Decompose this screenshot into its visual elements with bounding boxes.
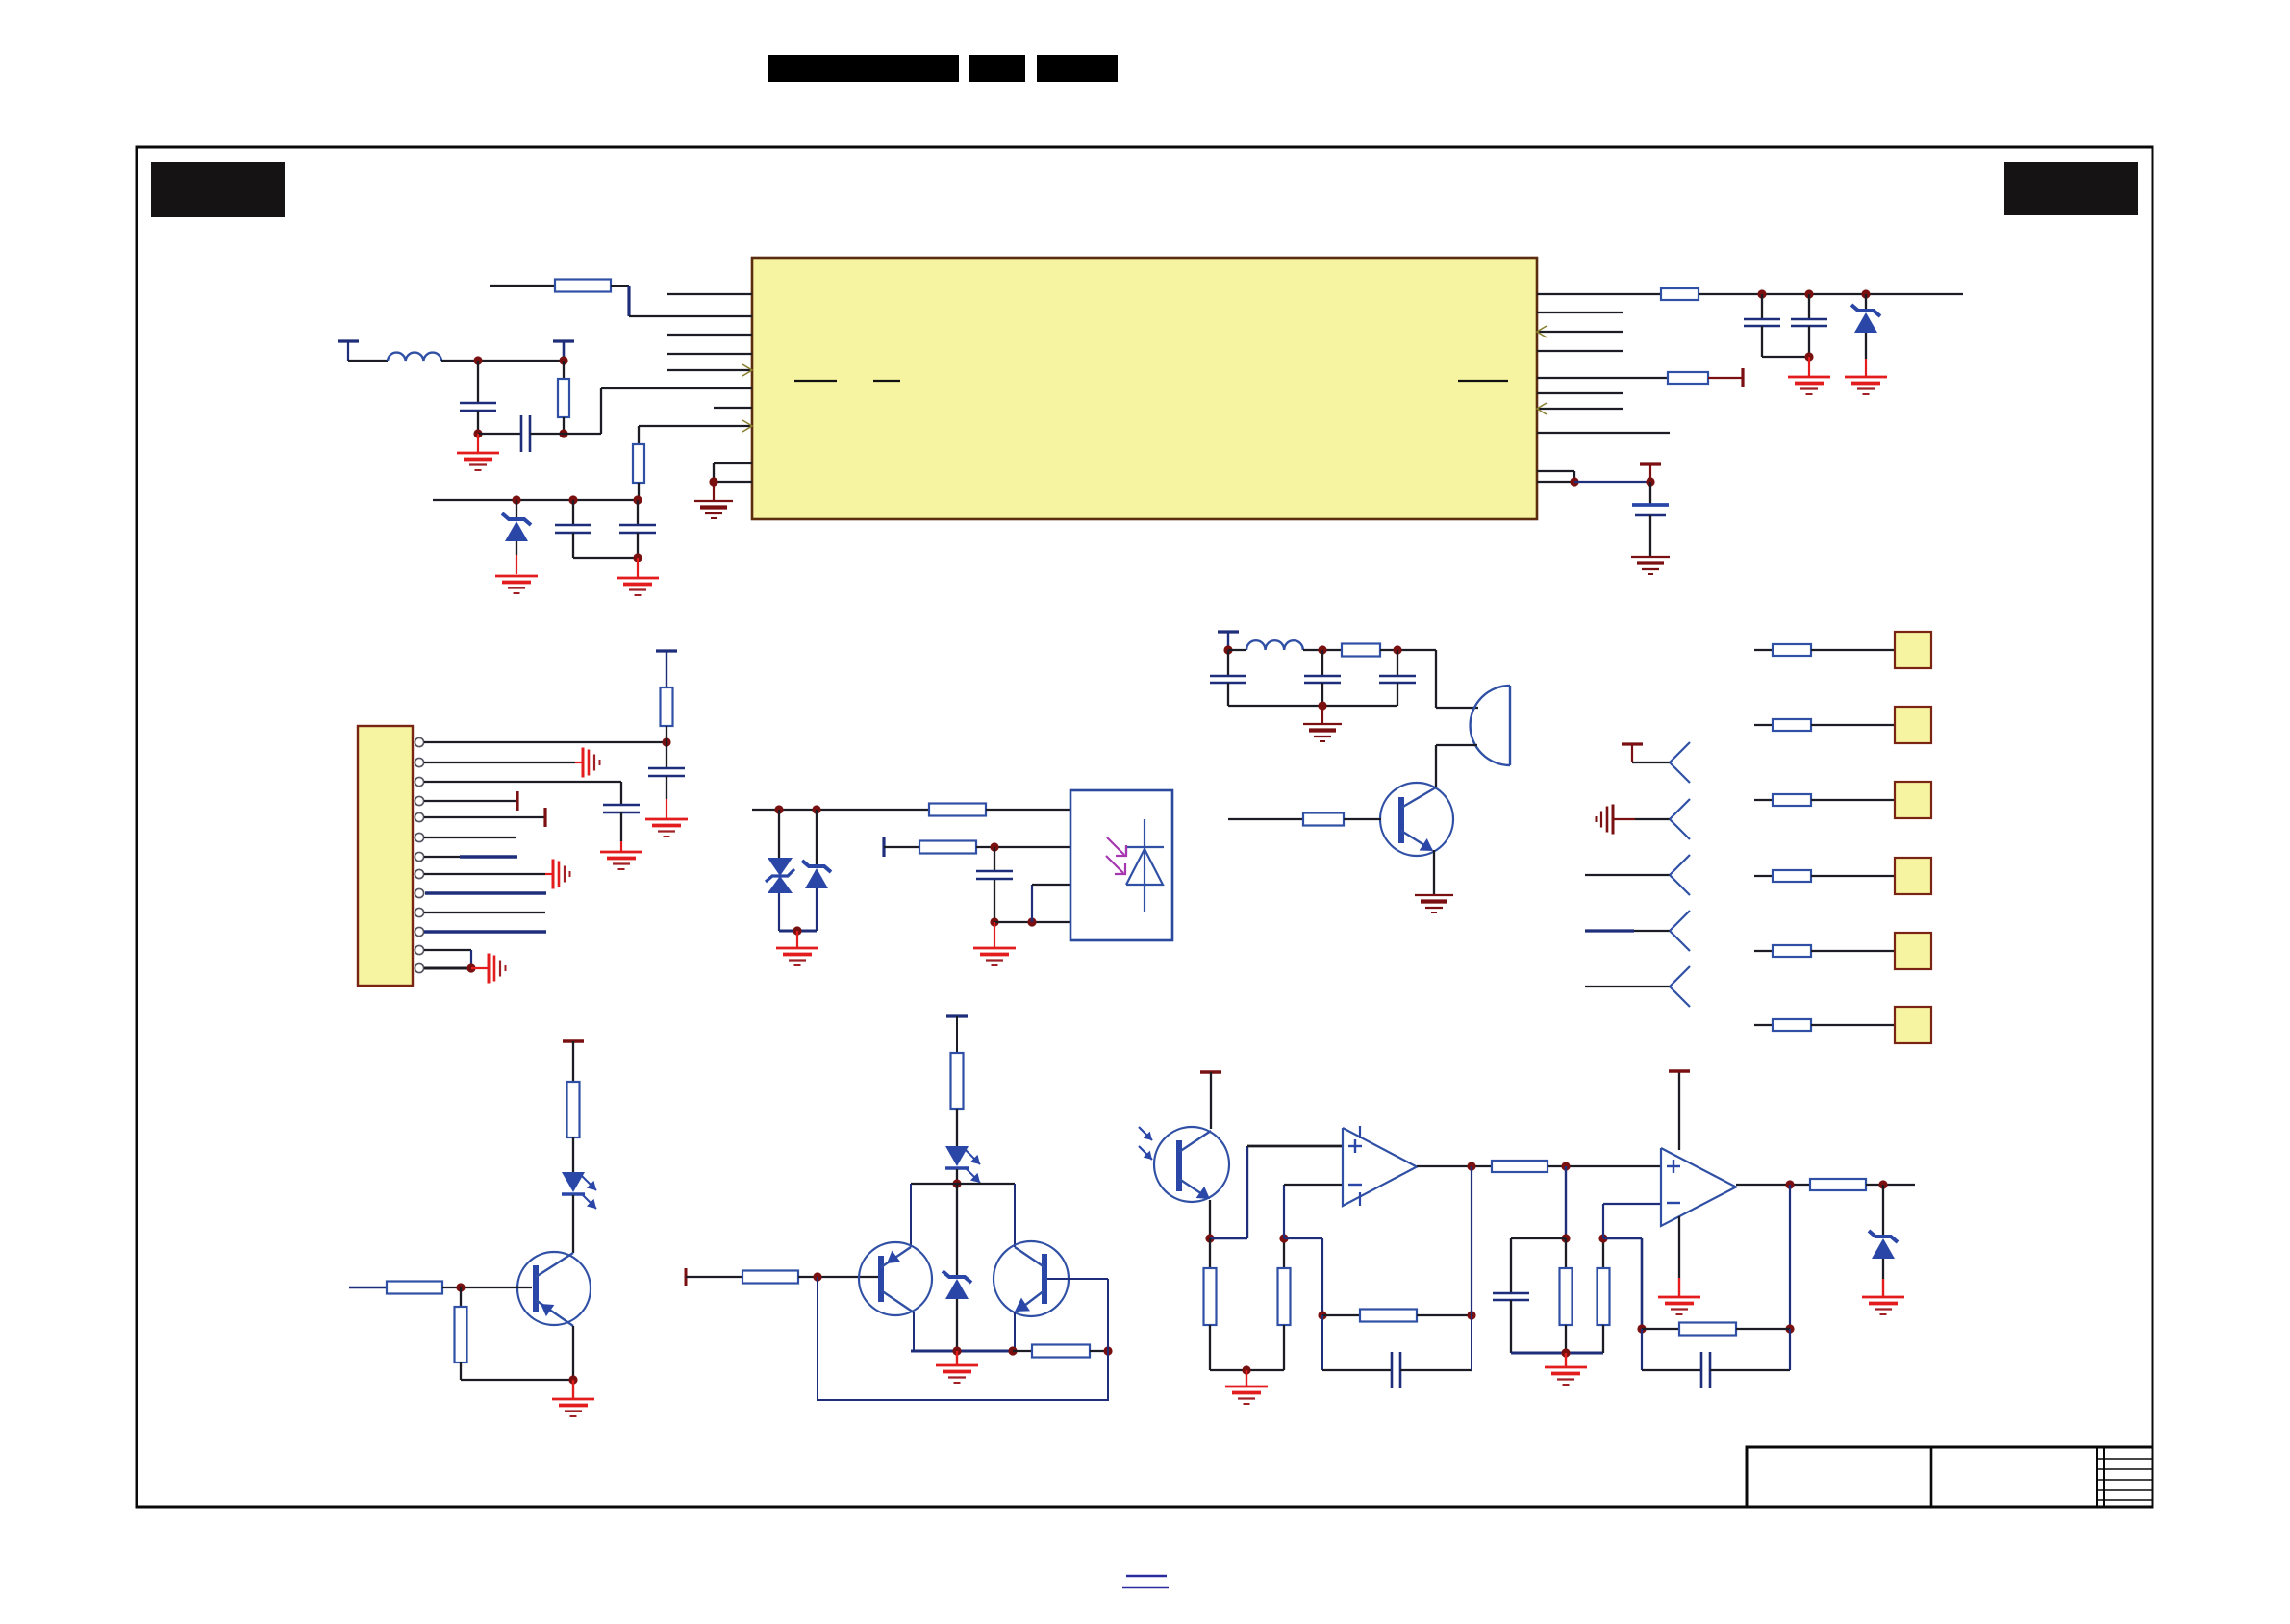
wire RN1 to pad (1811, 649, 1895, 651)
LED D5 (562, 1172, 585, 1192)
node U4 out (1785, 1180, 1794, 1188)
wire IC pin R3 (1537, 331, 1623, 333)
wire C5 to C6 bottom (1762, 356, 1809, 358)
power tap LED1 (563, 1039, 584, 1043)
wire net row 4 (1754, 875, 1773, 877)
capacitor C8 (666, 742, 667, 768)
connector J1 pin 11 (415, 927, 423, 936)
wire rail to Q4 (1014, 1184, 1016, 1247)
transistor Q2 (517, 1252, 591, 1325)
node C10 bottom (990, 917, 998, 926)
IC U1 body (752, 258, 1537, 519)
U2 light arrows (1106, 837, 1126, 874)
pad/testpoint TP2 (1895, 707, 1931, 743)
wire IC pin L4 (667, 353, 752, 355)
wire Q5 to op-amp + (1210, 1237, 1247, 1239)
resistor R5 (1668, 372, 1708, 384)
wire RN2 to pad (1811, 724, 1895, 726)
node stage2 gnd (1561, 1348, 1570, 1357)
capacitor C5 (1761, 294, 1763, 319)
zener D7 (956, 1184, 958, 1275)
wire J1 pin3 (424, 781, 621, 783)
node mid (1561, 1162, 1570, 1170)
wire IC pin L9 (714, 462, 752, 464)
wire node to IC pin L6 (564, 433, 601, 435)
wire net row 6 (1754, 1024, 1773, 1026)
wire J1 pin9 (425, 891, 546, 894)
wire fb2 down (1789, 1185, 1791, 1329)
resistor R7 (929, 804, 986, 816)
ground (side red) pin13 (488, 954, 491, 984)
power tap (inductor input) (338, 339, 359, 342)
node Q2 emitter (568, 1375, 577, 1384)
IC U1 redacted text (794, 380, 837, 382)
ground wire U4 (1678, 1216, 1680, 1278)
connector J1 pin 2 (415, 758, 423, 766)
node A (473, 356, 482, 364)
wire IC pin R2 (1537, 312, 1623, 313)
wire to R16 (1013, 1350, 1032, 1352)
wire R11 to LED (572, 1137, 574, 1172)
node stage1 gnd (1242, 1365, 1250, 1374)
node R22 top (1598, 1234, 1607, 1242)
ground (dark) filter (1321, 706, 1323, 723)
resistor R1 (490, 285, 555, 287)
resistor R23 (1810, 1179, 1866, 1190)
antenna A5 (1670, 966, 1690, 987)
resistor R21 (1565, 1238, 1567, 1268)
wire U4 - input (1602, 1204, 1604, 1238)
wire R9 to speaker top (1435, 650, 1437, 708)
power tap antenna 1 (1622, 742, 1643, 745)
title block divider 2 (2096, 1447, 2098, 1507)
wire Q4 base (1047, 1278, 1108, 1280)
power tap Q5 (1200, 1070, 1221, 1074)
node Z1 (512, 495, 520, 504)
capacitor C7 (polarized) (1649, 482, 1651, 505)
resistor R17 (1209, 1238, 1211, 1268)
power tap C7 (1640, 462, 1661, 465)
node pin1 (662, 737, 670, 746)
connector J1 pin 12 (415, 945, 423, 954)
resistor R19 (1322, 1314, 1360, 1316)
node L2 out (1318, 645, 1326, 654)
TVS diode D3 (778, 810, 780, 858)
node zener gnd (952, 1346, 961, 1355)
node R9 out (1393, 645, 1401, 654)
wire Q1 base (1228, 818, 1303, 820)
node R3 bottom (559, 429, 567, 437)
wire net row 2 (1754, 724, 1773, 726)
wire R13 to emitter node (461, 1379, 573, 1381)
resistor R10 (1303, 813, 1344, 826)
wire antenna 1 (1632, 762, 1670, 763)
transistor Q5 (photo) (1154, 1127, 1229, 1202)
wire IC pin R5 (1537, 377, 1668, 379)
pad/testpoint TP6 (1895, 1007, 1931, 1043)
connector J1 pin 10 (415, 908, 423, 916)
title block rows (2097, 1458, 2152, 1460)
antenna A4 (1670, 911, 1690, 931)
wire U4 output (1736, 1184, 1810, 1186)
LED D5 arrows (581, 1175, 596, 1190)
transistor Q1 (1380, 783, 1453, 856)
wire IC pin L8 (639, 425, 752, 427)
wire stage2 gnd rail (1511, 1352, 1603, 1355)
wire to R8 (884, 846, 919, 848)
wire antenna 5 (1585, 986, 1670, 987)
ground (side red) pin8 (552, 860, 555, 889)
node C7 top (1646, 477, 1654, 486)
wire R15 to LED2 (956, 1109, 958, 1146)
ground (red) Q2 (572, 1380, 574, 1398)
resistor R20 (1492, 1161, 1548, 1172)
pad/testpoint TP4 (1895, 858, 1931, 894)
wire IC pin L6 (601, 387, 752, 389)
resistor R22 (1602, 1238, 1604, 1268)
wire pin13 to ground (471, 967, 489, 969)
node Q2 base (456, 1283, 465, 1291)
wire J1 pin7 (424, 856, 462, 858)
node U3 out (1467, 1162, 1475, 1170)
wire LED to Q2 (572, 1195, 574, 1253)
capacitor C6 (1808, 294, 1810, 319)
wire R4 to rail end (1699, 293, 1963, 295)
title bar (redacted) 1 (768, 55, 959, 82)
wire rail to Q3 (910, 1184, 912, 1247)
wire to C7 node (1574, 481, 1650, 483)
wire J1 pin2 (424, 762, 575, 763)
ground (dark) Q1 (1415, 894, 1453, 896)
capacitor C15 (1511, 1237, 1566, 1239)
zener D4 (816, 810, 818, 864)
antenna A1 (1670, 742, 1690, 762)
wire speaker bottom (1436, 744, 1477, 746)
node C4 bottom (633, 553, 642, 562)
black label box top-left (151, 162, 285, 217)
node U2 pin3 branch (1027, 917, 1036, 926)
wire L2 to R9 (1303, 649, 1342, 651)
wire Q5 emitter (1209, 1200, 1211, 1238)
wire R23 out (1866, 1184, 1915, 1186)
ground (red) stage2 (1565, 1353, 1567, 1366)
wire IC pin L1 (667, 293, 752, 295)
title block divider 1 (1930, 1447, 1933, 1507)
op-amp U3 (1343, 1128, 1417, 1206)
wire RN4 to pad (1811, 875, 1895, 877)
wire IC pin R10 (1537, 481, 1574, 483)
wire antenna 4 (1585, 929, 1634, 932)
wire Q4 emitter (1014, 1312, 1016, 1351)
wire net row 5 (1754, 950, 1773, 952)
connector J1 body (358, 726, 413, 986)
capacitor C16 (fb) (1641, 1329, 1643, 1370)
zener D8 (1882, 1185, 1884, 1235)
capacitor C14 (fb) (1321, 1315, 1323, 1370)
pad/testpoint TP5 (1895, 933, 1931, 969)
resistor RN4 (1773, 870, 1811, 882)
wire feedback U3 (1284, 1237, 1322, 1239)
wire net row 3 (1754, 799, 1773, 801)
node L2 in (1223, 645, 1232, 654)
inductor L1 (388, 353, 441, 361)
wire bottom rail (911, 1350, 1013, 1353)
antenna A3 (1670, 855, 1690, 875)
connector J1 pin 1 (415, 737, 423, 746)
connector J1 pin 5 (415, 812, 423, 821)
node C1 bottom (473, 429, 482, 437)
wire J1 pin8 (424, 873, 545, 875)
wire J1 pin1 net (424, 741, 667, 743)
node TVS (774, 805, 783, 813)
transistor Q3 (859, 1242, 932, 1315)
wire R10 to Q1 (1344, 818, 1381, 820)
capacitor C4 (637, 500, 639, 525)
resistor R4 (1661, 288, 1699, 300)
wire J1 pin13 (424, 967, 471, 970)
wire R1 to IC pin L2 (611, 285, 629, 287)
pad/testpoint TP1 (1895, 632, 1931, 668)
power tap pull-up (656, 649, 677, 652)
node RC left (1561, 1234, 1570, 1242)
node fb2 right (1785, 1324, 1794, 1333)
node fb2 left (1637, 1324, 1646, 1333)
node L9/L10 junction (709, 477, 717, 486)
terminator input stub (685, 1268, 688, 1286)
ground (side red) pin2 (582, 748, 585, 778)
speaker LS1 (1509, 686, 1511, 765)
node fb1 left (1318, 1311, 1326, 1319)
node R16 right (1103, 1346, 1112, 1355)
resistor R8 (919, 841, 976, 854)
wire R7 to U2 (986, 809, 1070, 811)
wire stage1 bottom (1210, 1369, 1284, 1371)
capacitor C12 (1321, 650, 1323, 676)
wire RN6 to pad (1811, 1024, 1895, 1026)
node out (1878, 1180, 1887, 1188)
wire R12 to Q2 (442, 1287, 532, 1288)
node B (559, 356, 567, 364)
wire R5 to terminator (1708, 377, 1743, 379)
wire IC pin R7 (1537, 408, 1623, 410)
node Q5 emitter (1205, 1234, 1214, 1242)
capacitor C13 (1397, 650, 1398, 676)
terminator opto input (882, 837, 885, 857)
title bar (redacted) 2 (969, 55, 1025, 82)
wire U3 output (1417, 1165, 1492, 1167)
wire lower rail (433, 499, 638, 501)
power tap LED2 (946, 1014, 968, 1017)
node pin13 (466, 963, 475, 972)
note line 2 (1122, 1587, 1169, 1588)
LED D6 arrows (965, 1149, 980, 1164)
zener D2 (1865, 294, 1867, 309)
capacitor C3 (572, 500, 574, 525)
resistor RN6 (1773, 1019, 1811, 1031)
wire R16 to loop (1090, 1350, 1108, 1352)
node R1c (1861, 289, 1870, 298)
resistor R6 (661, 687, 673, 726)
title block outline (1747, 1447, 2152, 1507)
capacitor C1 (477, 361, 479, 403)
wire J1 pin10 (424, 912, 545, 913)
node R9/R10 (1570, 477, 1578, 486)
resistor R14 (742, 1271, 798, 1284)
node R8 out (990, 842, 998, 851)
node base loop (813, 1272, 821, 1281)
node D4 (812, 805, 820, 813)
power wire U4 (1678, 1071, 1680, 1150)
ground (red) under C9 (620, 841, 622, 851)
connector J1 pin 7 (415, 852, 423, 861)
wire R9 out (1380, 649, 1436, 651)
ground (red) bias cell (956, 1351, 958, 1364)
wire RN5 to pad (1811, 950, 1895, 952)
capacitor C2 (series) (478, 433, 521, 435)
ground (dark) under C7 (1631, 556, 1670, 558)
ground (dark) IC left (713, 482, 715, 501)
antenna A2 (1670, 799, 1690, 819)
wire IC pin L5 (667, 369, 752, 371)
node LED rail (952, 1179, 961, 1187)
resistor R2 (638, 426, 640, 444)
opto-coupler U2 body (1070, 790, 1172, 940)
wire Q1 emitter (1433, 850, 1435, 895)
resistor R18 (1283, 1238, 1285, 1268)
node fb1 right (1467, 1311, 1475, 1319)
ground (red) under C4 (637, 558, 639, 577)
wire J1 pin5 (424, 816, 545, 818)
power tap filter (1218, 630, 1239, 633)
resistor R11 (567, 1082, 580, 1137)
ground (red) TVS (796, 931, 798, 947)
transistor Q4 (994, 1241, 1069, 1316)
node R18 top (1279, 1234, 1288, 1242)
connector J1 pin 9 (415, 888, 423, 897)
ground (red) under C6 (1808, 357, 1810, 376)
title block divider 3 (2103, 1447, 2105, 1507)
resistor R15 (951, 1053, 964, 1109)
connector J1 pin 3 (415, 777, 423, 786)
wire U2 pin3 (1031, 885, 1033, 922)
node R1a (1757, 289, 1766, 298)
node C4 top (633, 495, 642, 504)
wire antenna 3 (1585, 874, 1670, 876)
node filter gnd (1318, 701, 1326, 710)
node TVS bottom (793, 926, 801, 935)
wire J1 pin12 (424, 949, 471, 951)
wire R22 to fb2 (1603, 1237, 1642, 1240)
wire to inductor (348, 360, 388, 362)
black label box top-right (2004, 162, 2138, 215)
wire Q3 collector (913, 1312, 915, 1351)
resistor R24 (1642, 1328, 1679, 1330)
wire R20 to U4 + (1548, 1165, 1661, 1167)
wire R14 to Q3 base (798, 1276, 878, 1278)
connector J1 pin 8 (415, 869, 423, 878)
capacitor C11 (1227, 650, 1229, 676)
resistor R9 (1342, 644, 1380, 657)
wire TVS bottom (779, 930, 817, 933)
wire Q2 emitter (572, 1326, 574, 1380)
terminator pin5 (543, 808, 546, 827)
connector J1 pin 6 (415, 833, 423, 841)
wire antenna 2 (1613, 818, 1635, 820)
wire U3 out down (1471, 1166, 1472, 1315)
LED D6 (945, 1146, 969, 1166)
Q5 light arrows (1139, 1127, 1152, 1140)
terminator T1 (1741, 368, 1744, 387)
node R1b (1804, 289, 1813, 298)
wire feedback loop (818, 1277, 1108, 1400)
ground (red) under C8 (666, 799, 667, 818)
U2 photodiode (1144, 819, 1145, 912)
ground (red) under C1 (477, 434, 479, 453)
connector J1 pin 4 (415, 796, 423, 805)
resistor R16 (1032, 1345, 1090, 1358)
note line 1 (1126, 1575, 1167, 1577)
wire IC pin L10 (714, 481, 752, 483)
connector J1 pin 13 (415, 963, 423, 972)
node C6 bottom (1804, 352, 1813, 361)
wire R8 to U2 (976, 846, 1070, 848)
resistor RN5 (1773, 945, 1811, 957)
ground (red) stage1 (1246, 1370, 1247, 1386)
ground (side dark) antenna 2 (1612, 805, 1615, 835)
resistor RN1 (1773, 644, 1811, 656)
ground (red) U4 (1658, 1296, 1700, 1299)
wire opto top rail (752, 809, 929, 811)
wire IC pin R1 rail (1537, 293, 1661, 295)
wire IC pin L7 (714, 407, 752, 409)
capacitor C10 (994, 847, 995, 871)
wire J1 pin6 (424, 837, 516, 838)
pad/testpoint TP3 (1895, 782, 1931, 818)
terminator pin4 (516, 791, 518, 811)
title bar (redacted) 3 (1037, 55, 1118, 82)
resistor RN2 (1773, 719, 1811, 731)
power tap node B (553, 339, 574, 342)
wire LED rail (911, 1183, 1015, 1185)
resistor R3 (563, 361, 565, 379)
wire input to R14 (686, 1276, 742, 1278)
ground (red) D8 (1862, 1296, 1904, 1299)
wire IC pin R4 (1537, 350, 1623, 352)
wire mid down (1565, 1166, 1567, 1238)
wire inductor to node A (441, 360, 564, 362)
op-amp U4 (1661, 1148, 1736, 1226)
resistor R13 (460, 1287, 462, 1307)
node R16 left (1008, 1346, 1017, 1355)
wire IC pin R8 (1537, 432, 1670, 434)
wire LED2 to rail (956, 1169, 958, 1184)
wire IC pin R9 (1537, 470, 1574, 472)
resistor R12 (387, 1282, 442, 1294)
ground (red) under C10 (994, 922, 995, 947)
node C3 top (568, 495, 577, 504)
wire J1 pin11 (424, 930, 546, 933)
wire RN3 to pad (1811, 799, 1895, 801)
wire op-amp - input (1283, 1185, 1285, 1238)
wire Q2 base (349, 1287, 387, 1288)
inductor L2 (1246, 640, 1303, 650)
wire C3-C4 bottom (573, 557, 638, 559)
capacitor C9 (603, 804, 640, 807)
ground (red) under D2 (1865, 359, 1867, 376)
wire IC pin R6 (1537, 392, 1623, 394)
ground (red) under D1 (495, 575, 538, 578)
wire J1 pin4 (424, 800, 517, 802)
